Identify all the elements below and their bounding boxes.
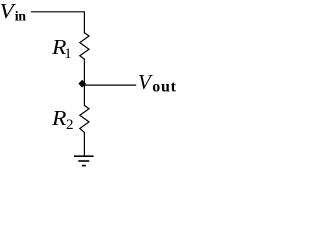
svg-text:V: V xyxy=(0,0,16,23)
svg-text:R: R xyxy=(51,106,67,130)
svg-text:2: 2 xyxy=(66,117,74,133)
svg-text:in: in xyxy=(15,10,26,25)
svg-text:V: V xyxy=(138,70,153,94)
svg-text:1: 1 xyxy=(64,46,72,62)
svg-text:out: out xyxy=(152,79,176,96)
